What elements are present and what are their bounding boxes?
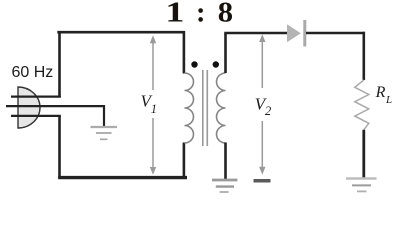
- svg-text:1: 1: [151, 102, 157, 116]
- wire top rail primary loop: [57, 31, 185, 34]
- ground symbol under resistor: [346, 179, 377, 192]
- V2 reference bar: [254, 179, 271, 183]
- wire left vertical lower segment: [58, 116, 61, 179]
- V2 measurement arrow: [259, 34, 265, 174]
- plug bottom prong: [11, 115, 61, 117]
- wire resistor to ground: [362, 130, 365, 179]
- transformer primary winding: [185, 73, 194, 143]
- plug middle (neutral) wire to ground: [6, 106, 104, 126]
- polarity dot primary: [191, 61, 197, 67]
- wire diode to right corner: [306, 32, 365, 35]
- polarity dot secondary: [213, 61, 219, 67]
- wire right vertical to resistor: [362, 32, 365, 80]
- V1 measurement arrow: [150, 35, 156, 175]
- wire secondary vertical top: [224, 33, 227, 73]
- wire bottom rail primary loop: [58, 176, 187, 179]
- diode D1 cathode bar: [303, 20, 306, 47]
- svg-text:60 Hz: 60 Hz: [12, 64, 54, 81]
- AC plug source body: [18, 87, 40, 128]
- resistor RL zigzag: [355, 80, 369, 130]
- svg-text:R: R: [375, 84, 386, 101]
- svg-text:1: 1: [165, 0, 184, 29]
- transformer secondary winding: [217, 73, 226, 143]
- ground symbol under secondary: [212, 180, 237, 192]
- wire primary right vertical lower: [183, 143, 186, 179]
- wire primary right vertical upper: [183, 31, 186, 74]
- label 1 : 8 turns ratio: [165, 0, 233, 29]
- wire secondary top rail to diode: [224, 32, 287, 35]
- svg-text::: :: [196, 0, 206, 29]
- wire secondary vertical bottom to ground: [224, 143, 227, 180]
- transformer core: [203, 70, 208, 146]
- plug top prong: [11, 95, 61, 97]
- wire left vertical upper segment: [58, 31, 61, 98]
- diode D1 anode triangle: [287, 24, 301, 42]
- svg-text:L: L: [385, 94, 392, 106]
- svg-text:2: 2: [265, 104, 271, 118]
- ground symbol left loop: [91, 127, 118, 139]
- svg-text:8: 8: [218, 0, 233, 29]
